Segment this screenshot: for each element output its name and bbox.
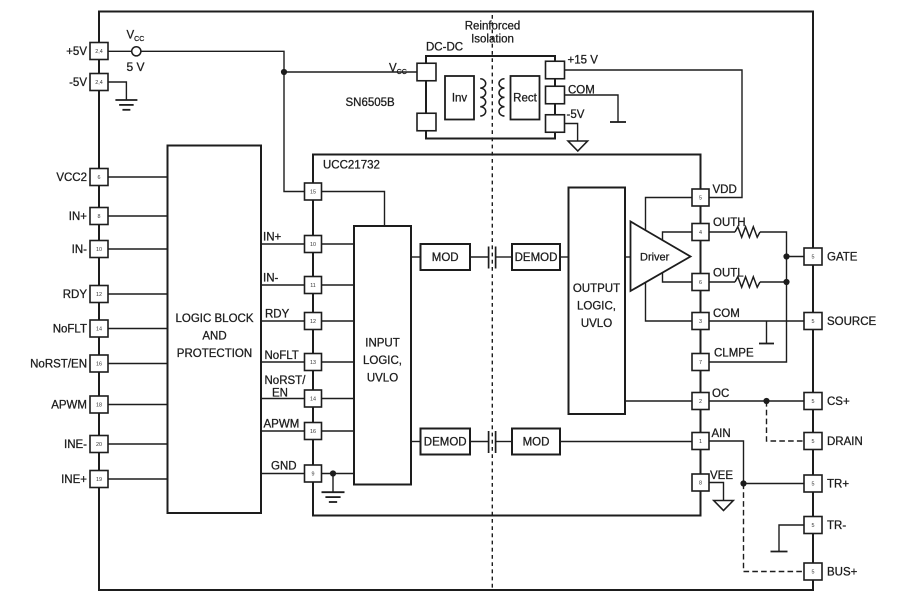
ground symbol (GND pin) [322,491,345,493]
pin 8 box (VEE) [692,474,709,491]
output logic UVLO block [569,188,626,415]
svg-text:IN-: IN- [263,273,279,285]
TR- reference bar [771,551,788,553]
svg-text:7: 7 [699,360,702,366]
svg-text:UVLO: UVLO [581,318,612,330]
svg-text:PROTECTION: PROTECTION [177,348,252,360]
svg-text:2,4: 2,4 [95,49,103,55]
svg-text:AND: AND [202,331,226,343]
svg-text:11: 11 [310,283,316,289]
svg-text:10: 10 [310,242,316,248]
wire pin 14 to input logic [322,398,355,400]
rectifier block Rect [511,76,540,120]
connector pin (GATE) [804,248,822,265]
wire IN+ to logic block [108,215,168,217]
svg-text:SOURCE: SOURCE [827,316,877,328]
pin 2 box (OC) [692,393,709,410]
pin 15 box [305,183,322,200]
wire AIN node to TR+ pin [744,483,805,485]
svg-text:IN-: IN- [72,244,88,256]
svg-text:+15 V: +15 V [568,55,599,67]
svg-text:Reinforced: Reinforced [465,21,521,33]
demodulator DEMOD (return) [421,429,471,455]
wire OUTH to driver [663,232,693,240]
connector pin (TR-) [804,517,822,534]
wire MOD to isolation cap [470,256,488,258]
svg-text:NoRST/: NoRST/ [265,375,307,387]
SN6505B COM pin box [546,86,565,104]
SN6505B -5V pin box [546,115,565,133]
wire COM reference stub [766,321,768,343]
wire +15V output [565,70,743,198]
connector pin 2,4 (-5V) [90,74,108,91]
pin 1 box (AIN) [692,433,709,450]
svg-text:RDY: RDY [265,309,290,321]
wire RDY to logic block [108,293,168,295]
connector pin 12 (RDY) [90,286,108,303]
wire NoFLT to logic block [108,328,168,330]
svg-text:LOGIC BLOCK: LOGIC BLOCK [176,313,254,325]
demodulator DEMOD (forward) [512,244,560,270]
pin 14 box (NoRST/EN) [305,390,322,407]
svg-text:12: 12 [96,292,102,298]
connector pin (BUS+) [804,563,822,580]
svg-text:MOD: MOD [432,252,459,264]
svg-text:5: 5 [812,523,815,529]
svg-text:DEMOD: DEMOD [515,252,558,264]
junction dot VCC node [281,69,287,75]
wire COM output [565,95,619,122]
pin 12 box (RDY) [305,313,322,330]
svg-text:APWM: APWM [51,400,87,412]
svg-text:APWM: APWM [264,419,300,431]
pin 13 box (NoFLT) [305,354,322,371]
wire VDD to driver [646,198,693,231]
svg-text:Isolation: Isolation [471,34,514,46]
SN6505B VCC pin box [417,63,436,81]
svg-text:AIN: AIN [712,428,731,440]
wire output logic to driver [625,256,631,258]
wire COM to driver [646,283,693,322]
svg-text:12: 12 [310,319,316,325]
svg-text:1: 1 [699,439,702,445]
node VCC bubble [132,47,141,56]
svg-text:-5V: -5V [69,77,87,89]
svg-text:5: 5 [812,319,815,325]
svg-text:5: 5 [812,569,815,575]
dashed wire AIN node to BUS+ [744,484,804,572]
VEE rail arrow [714,501,734,511]
junction dot AIN/TR+ [740,480,746,486]
svg-text:OUTL: OUTL [713,268,744,280]
wire VEE to rail arrow [709,483,724,501]
connector pin 8 (IN+) [90,208,108,225]
svg-text:INE+: INE+ [61,474,87,486]
connector pin 19 (INE+) [90,471,108,488]
wire MOD to AIN pin [560,441,692,443]
svg-text:IN+: IN+ [263,232,282,244]
svg-text:13: 13 [310,360,316,366]
SN6505B +15V pin box [546,61,565,79]
wire DEMOD to isolation cap (return) [470,441,488,443]
wire input logic to MOD [411,256,421,258]
junction dot gate net / OUTL [783,279,789,285]
svg-text:DEMOD: DEMOD [424,437,467,449]
wire logic block to pin 14 (NoRST/EN) [261,398,305,400]
svg-text:IN+: IN+ [69,211,88,223]
wire VCC node to SN6505B VCC pin [284,71,417,73]
svg-text:VCC2: VCC2 [56,172,87,184]
svg-text:OC: OC [712,388,729,400]
svg-text:16: 16 [310,429,316,435]
connector pin 20 (INE-) [90,436,108,453]
wire +5V box to 5V bubble [108,50,132,52]
svg-text:RDY: RDY [63,289,88,301]
wire logic block to pin 11 (IN-) [261,284,305,286]
svg-text:UVLO: UVLO [367,373,398,385]
outer boundary frame [99,12,813,591]
svg-text:5: 5 [812,254,815,260]
svg-text:LOGIC,: LOGIC, [577,301,616,313]
svg-text:3: 3 [699,319,702,325]
svg-text:16: 16 [96,361,102,367]
wire GND stub [332,474,334,493]
pin 3 box (COM) [692,313,709,330]
wire NoRST/EN to logic block [108,363,168,365]
pin 16 box (APWM) [305,423,322,440]
-5V rail arrow [568,141,588,151]
svg-text:19: 19 [96,477,102,483]
wire pin 10 to input logic [322,243,355,245]
connector pin 2,4 (+5V) [90,43,108,60]
wire OUTH resistor to gate net [709,232,787,362]
pin 11 box (IN-) [305,277,322,294]
svg-text:LOGIC,: LOGIC, [363,355,402,367]
transformer primary winding [480,79,485,116]
wire -5V box to ground [108,82,126,100]
svg-text:CS+: CS+ [827,396,850,408]
wire isolation cap to DEMOD [496,256,512,258]
connector pin (DRAIN) [804,433,822,450]
svg-text:2: 2 [699,399,702,405]
wire OC to CS+ pin [709,400,804,402]
wire isolation cap to MOD (return) [496,441,512,443]
svg-text:5: 5 [699,195,702,201]
wire logic block to pin 12 (RDY) [261,320,305,322]
svg-text:UCC21732: UCC21732 [323,160,380,172]
wire OUTL resistor to gate net [760,281,787,283]
wire logic block to pin 16 (APWM) [261,430,305,432]
junction dot OC/CS+ [763,398,769,404]
svg-text:9: 9 [312,471,315,477]
svg-text:INPUT: INPUT [365,338,400,350]
svg-text:NoRST/EN: NoRST/EN [30,359,87,371]
connector pin (SOURCE) [804,313,822,330]
wire pin 16 to input logic [322,430,355,432]
wire TR- reference [779,525,804,551]
inverter block Inv [445,76,474,120]
svg-text:INE-: INE- [64,439,87,451]
svg-text:VEE: VEE [710,470,733,482]
wire gate net to GATE pin [787,256,805,258]
reinforced isolation barrier (dashed) [491,15,493,590]
wire DEMOD to output logic [560,256,569,258]
wire APWM to logic block [108,404,168,406]
svg-text:NoFLT: NoFLT [53,324,87,336]
wire INE+ to logic block [108,478,168,480]
svg-text:14: 14 [310,396,316,402]
svg-text:GATE: GATE [827,252,858,264]
wire pin 12 to input logic [322,320,355,322]
wire pin 9 to input logic [322,473,355,475]
connector pin 10 (IN-) [90,241,108,258]
dashed wire CS+ to DRAIN [767,401,804,441]
wire VCC2 to logic block [108,176,168,178]
wire INE- to logic block [108,443,168,445]
UCC21732 chip outline [313,155,701,516]
pin 7 box (CLMPE) [692,354,709,371]
wire IN- to logic block [108,248,168,250]
svg-text:Driver: Driver [640,252,670,264]
gate resistor (OUTH) [735,227,760,237]
svg-text:4: 4 [699,230,702,236]
wire logic block to pin 10 (IN+) [261,243,305,245]
pin 5 box (VDD) [692,189,709,206]
svg-text:20: 20 [96,442,102,448]
logic block [168,146,262,514]
connector pin (TR+) [804,475,822,492]
svg-text:14: 14 [96,326,102,332]
svg-text:BUS+: BUS+ [827,567,858,579]
COM reference bar (DC-DC) [610,121,626,123]
isolation capacitor (forward) [488,247,490,269]
svg-text:VDD: VDD [713,184,737,196]
svg-text:MOD: MOD [523,437,550,449]
wire logic block to pin 9 (GND) [261,473,305,475]
svg-text:CLMPE: CLMPE [714,348,754,360]
svg-text:TR-: TR- [827,520,846,532]
wire logic block to pin 13 (NoFLT) [261,361,305,363]
svg-text:6: 6 [98,175,101,181]
driver amplifier [631,222,691,292]
pin 9 box (GND) [305,465,322,482]
COM reference bar (source) [759,343,774,345]
svg-text:SN6505B: SN6505B [346,97,396,109]
svg-text:5: 5 [812,481,815,487]
wire OUTL to resistor [709,281,735,283]
svg-text:COM: COM [713,308,740,320]
wire input logic to DEMOD (return) [411,441,421,443]
svg-text:8: 8 [699,480,702,486]
pin 6 box (OUTL) [692,274,709,291]
svg-text:5: 5 [812,439,815,445]
wire OUTH to resistor [709,231,735,233]
svg-text:TR+: TR+ [827,479,849,491]
wire AIN to TR+ node [709,441,744,484]
svg-text:10: 10 [96,247,102,253]
input logic UVLO block [354,226,411,485]
wire COM to SOURCE pin [709,320,804,322]
connector pin (CS+) [804,393,822,410]
svg-text:DRAIN: DRAIN [827,436,863,448]
transformer secondary winding [499,79,505,116]
svg-text:EN: EN [272,388,288,400]
svg-text:-5V: -5V [567,109,585,121]
modulator MOD (return) [512,429,560,455]
svg-text:5: 5 [812,399,815,405]
wire -5V output [565,124,578,141]
svg-text:5 V: 5 V [127,60,145,74]
svg-text:Rect: Rect [513,93,537,105]
connector pin 18 (APWM) [90,396,108,413]
connector pin 14 (NoFLT) [90,320,108,337]
junction dot GND [330,470,336,476]
wire pin 11 to input logic [322,284,355,286]
svg-text:COM: COM [568,85,595,97]
wire VCC node to pin 15 [284,72,305,192]
svg-text:NoFLT: NoFLT [265,350,299,362]
gate resistor (OUTL) [735,277,760,287]
wire 5V bubble to junction [141,51,284,72]
svg-text:+5V: +5V [66,46,87,58]
svg-text:18: 18 [96,402,102,408]
wire pin 15 to input logic top [322,192,385,227]
wire OUTL to driver [663,273,693,282]
svg-text:Inv: Inv [452,93,468,105]
svg-text:6: 6 [699,280,702,286]
modulator MOD (forward) [421,244,471,270]
DC-DC converter outline [426,56,555,139]
pin 4 box (OUTH) [692,224,709,241]
svg-text:15: 15 [310,189,316,195]
svg-text:OUTH: OUTH [713,217,746,229]
connector pin 6 (VCC2) [90,169,108,186]
ground symbol (input side) [115,99,137,101]
svg-text:8: 8 [98,214,101,220]
svg-text:DC-DC: DC-DC [426,42,463,54]
svg-text:2,4: 2,4 [95,80,103,86]
pin 10 box (IN+) [305,236,322,253]
svg-text:GND: GND [271,461,297,473]
wire output logic to OC pin [625,400,692,402]
SN6505B GND pin box [417,113,436,131]
svg-text:OUTPUT: OUTPUT [573,283,620,295]
wire pin 13 to input logic [322,361,355,363]
junction dot gate net / GATE [783,253,789,259]
isolation capacitor (return) [488,431,490,453]
connector pin 16 (NoRST/EN) [90,355,108,372]
